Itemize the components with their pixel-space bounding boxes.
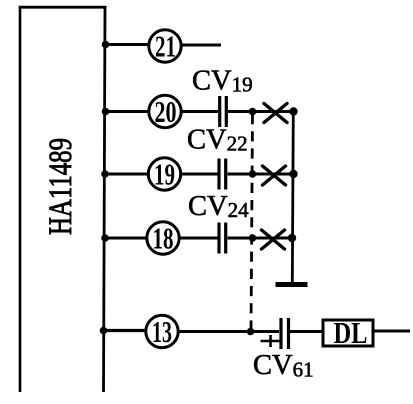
trimmer X mark pin18 row — [262, 230, 285, 249]
wire pin19 capacitor to rail — [228, 173, 294, 176]
junction dot pin19 at IC edge — [101, 170, 109, 178]
svg-text:18: 18 — [153, 221, 174, 256]
IC U1 HA11489 right edge — [104, 7, 106, 392]
junction dot pin20 row at rail — [289, 107, 297, 115]
wire pin20 capacitor to rail — [228, 110, 294, 113]
wire pin21 from IC to circle — [104, 43, 148, 46]
pin 13 circle — [146, 315, 178, 347]
junction dot pin20 at IC edge — [102, 108, 110, 116]
rail wire right vertical — [292, 112, 293, 285]
svg-text:HA11489: HA11489 — [43, 138, 79, 235]
capacitor CV61 plus adjust mark — [261, 335, 281, 347]
wire pin13 circle to capacitor CV61 — [179, 330, 279, 333]
junction dot pin19 row at rail — [289, 170, 297, 178]
ground bar — [276, 282, 308, 287]
wire pin19 circle to capacitor CV22 — [181, 173, 218, 176]
capacitor CV61 plates — [281, 318, 289, 349]
trimmer X mark pin20 row — [264, 104, 287, 123]
wire pin13 from IC to circle — [103, 329, 146, 332]
junction dot pin13 row at dashed line — [247, 328, 255, 336]
IC U1 HA11489 top edge — [19, 6, 107, 9]
junction dot pin21 at IC edge — [102, 41, 110, 49]
svg-text:19: 19 — [154, 157, 175, 192]
junction dot pin13 at IC edge — [100, 327, 108, 335]
capacitor CV22 plates — [219, 159, 226, 190]
pin 19 circle — [148, 158, 180, 190]
svg-text:21: 21 — [155, 29, 176, 64]
wire pin18 circle to capacitor CV24 — [180, 237, 218, 240]
svg-text:20: 20 — [155, 94, 177, 129]
capacitor CV19 plates — [220, 96, 227, 127]
junction dot pin18 row at dashed line — [249, 234, 257, 242]
wire pin20 circle to capacitor CV19 — [182, 110, 218, 113]
IC U1 HA11489 left edge — [19, 7, 22, 392]
capacitor CV24 plates — [219, 223, 226, 254]
pin 21 circle — [149, 30, 181, 62]
dashed net wire vertical — [251, 114, 253, 330]
wire pin21 right stub — [182, 44, 221, 47]
pin 18 circle — [147, 222, 179, 254]
wire DL box right stub — [373, 330, 410, 333]
wire pin19 from IC to circle — [104, 173, 148, 176]
junction dot pin20 row at dashed line — [249, 108, 257, 116]
wire capacitor CV61 to DL box — [290, 330, 322, 333]
pin 20 circle — [149, 95, 181, 127]
wire pin18 from IC to circle — [104, 237, 147, 240]
junction dot pin18 at IC edge — [101, 234, 109, 242]
delay line DL box — [323, 320, 373, 346]
wire pin18 capacitor to rail — [228, 237, 293, 240]
wire pin20 from IC to circle — [104, 110, 148, 113]
svg-text:DL: DL — [334, 315, 368, 350]
junction dot pin19 row at dashed line — [249, 170, 257, 178]
svg-text:13: 13 — [152, 314, 172, 349]
trimmer X mark pin19 row — [263, 166, 286, 185]
junction dot pin18 row at rail — [288, 234, 296, 242]
